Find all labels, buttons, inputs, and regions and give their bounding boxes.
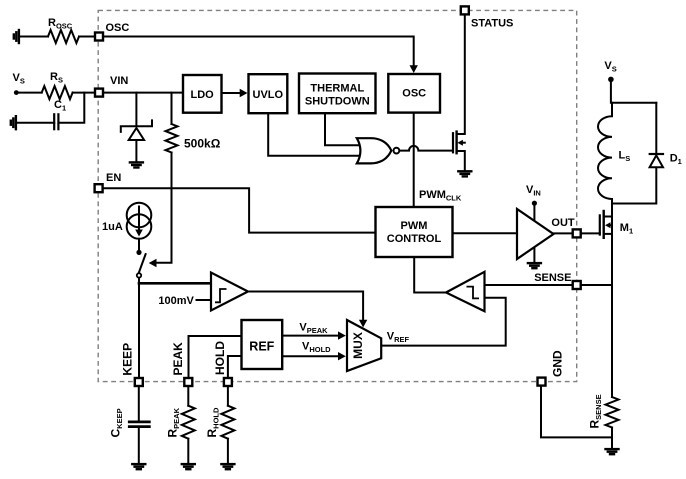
svg-text:OUT: OUT <box>551 217 575 229</box>
svg-text:CONTROL: CONTROL <box>387 233 442 245</box>
svg-text:1uA: 1uA <box>102 221 123 233</box>
svg-text:STATUS: STATUS <box>471 17 513 29</box>
svg-text:OSC: OSC <box>106 22 130 34</box>
svg-text:THERMAL: THERMAL <box>310 83 364 95</box>
svg-text:KEEP: KEEP <box>121 343 135 376</box>
svg-text:REF: REF <box>249 340 274 354</box>
svg-text:500kΩ: 500kΩ <box>184 137 221 151</box>
svg-text:SHUTDOWN: SHUTDOWN <box>305 96 370 108</box>
svg-text:100mV: 100mV <box>158 295 194 307</box>
svg-text:GND: GND <box>551 350 565 377</box>
svg-text:SENSE: SENSE <box>534 272 571 284</box>
svg-text:UVLO: UVLO <box>253 89 284 101</box>
svg-text:PWM: PWM <box>401 220 428 232</box>
svg-text:VIN: VIN <box>110 75 128 87</box>
svg-text:PEAK: PEAK <box>171 342 185 376</box>
svg-text:HOLD: HOLD <box>213 341 227 375</box>
svg-text:OSC: OSC <box>402 87 426 99</box>
svg-text:LDO: LDO <box>191 89 215 101</box>
svg-text:EN: EN <box>106 172 121 184</box>
svg-text:MUX: MUX <box>351 332 365 359</box>
